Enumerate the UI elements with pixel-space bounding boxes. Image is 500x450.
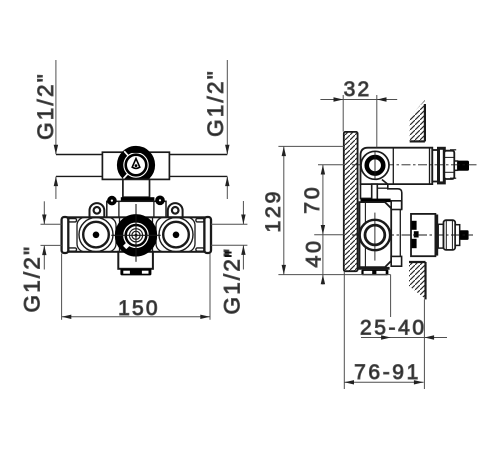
dim G1/2 bottom-left (41, 201, 62, 269)
upper port ring (361, 151, 389, 179)
top knob (120, 149, 152, 181)
feet bar (120, 269, 151, 276)
wall hatch band bottom-right (409, 262, 426, 299)
label 129 (261, 189, 285, 233)
label G1/2 top-right (203, 69, 228, 137)
svg-text:25-40: 25-40 (360, 317, 427, 340)
upper cartridge rings (432, 148, 469, 183)
port boss left (77, 217, 116, 252)
collar band side (361, 199, 391, 203)
central knob (111, 204, 160, 262)
screw left (107, 196, 117, 206)
screw right (155, 196, 165, 206)
upper valve body (361, 148, 433, 184)
collar plate (121, 197, 155, 201)
symmetry mark = (225, 252, 232, 257)
lower block (358, 202, 391, 268)
nipple tabs (68, 219, 204, 252)
centerline lower (352, 234, 473, 236)
dim G1/2 top-left (54, 60, 58, 199)
port circle right (159, 218, 193, 252)
side feet (361, 270, 388, 276)
dim 129 (278, 146, 390, 274)
label G1/2 bottom-left (19, 245, 44, 313)
label G1/2 top-left (33, 72, 58, 140)
centerline upper (352, 164, 478, 166)
dim G1/2 bottom-right (211, 201, 248, 270)
dim 76-91 (344, 272, 423, 390)
svg-text:G1/2": G1/2" (19, 245, 44, 313)
svg-text:G1/2": G1/2" (220, 247, 245, 315)
label G1/2 bottom-right (220, 247, 245, 315)
neck (123, 179, 150, 197)
port circle left (79, 218, 113, 252)
svg-text:150: 150 (118, 297, 160, 320)
dim 25-40 (361, 275, 447, 389)
end cap right (204, 217, 211, 253)
knob boss verticals (119, 217, 121, 252)
label 40 (302, 238, 326, 267)
ear right (168, 203, 183, 217)
top valve body rect (102, 152, 169, 179)
dim 150 (62, 254, 210, 320)
label 70 (300, 185, 324, 214)
svg-text:129: 129 (261, 189, 285, 233)
svg-text:70: 70 (300, 185, 324, 214)
svg-text:G1/2": G1/2" (203, 69, 228, 137)
upper valve boss below (361, 180, 402, 210)
svg-text:32: 32 (344, 78, 372, 101)
lower port circles (360, 213, 390, 261)
top pipe (56, 155, 227, 177)
wall plate hatched (344, 132, 358, 271)
ear left (90, 203, 105, 217)
svg-text:40: 40 (302, 238, 326, 267)
main body (68, 217, 204, 252)
bottom tab (118, 252, 153, 269)
strap between valves (372, 184, 378, 214)
end cap left (62, 217, 69, 253)
cartridge housing + posts (107, 201, 166, 217)
lower cartridge housing (411, 214, 469, 256)
port boss right (156, 217, 195, 252)
svg-text:G1/2": G1/2" (33, 72, 58, 140)
dim 32 (320, 95, 397, 147)
dim 70 (314, 165, 344, 285)
dim G1/2 top-right (225, 60, 229, 199)
svg-text:76-91: 76-91 (354, 361, 421, 384)
step plates to cartridge (391, 201, 401, 266)
wall hatch band top-right (410, 100, 425, 141)
